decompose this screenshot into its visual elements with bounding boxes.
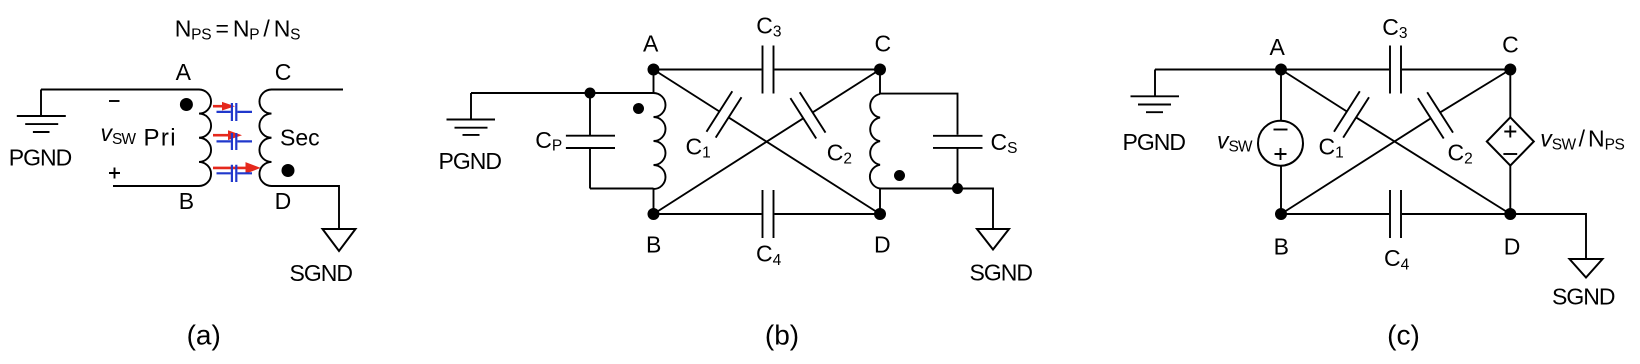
capacitor C3 (1390, 46, 1401, 94)
SGND triangle (323, 229, 356, 251)
svg-text:A: A (176, 59, 192, 85)
capacitor C1 plates (707, 91, 742, 137)
svg-text:PGND: PGND (439, 148, 502, 174)
minus inside circle (1274, 129, 1288, 131)
primary polarity dot (633, 103, 644, 114)
parasitic arrow 3 (red) (213, 162, 261, 174)
wire top-left to primary (41, 89, 199, 91)
primary polarity dot (180, 98, 193, 111)
wire secondary top (272, 89, 344, 91)
svg-text:B: B (179, 188, 194, 214)
capacitor CP (566, 93, 615, 189)
minus inside diamond (1503, 153, 1517, 155)
diagonal wire B-C (1281, 70, 1510, 215)
wire A to winding (653, 70, 655, 94)
svg-text:A: A (643, 31, 659, 57)
dependent source diamond (1487, 117, 1534, 165)
diagonal wire A-D (1281, 70, 1510, 215)
plus inside circle (1275, 148, 1287, 160)
transformer secondary winding Sec (259, 90, 271, 187)
ground PGND symbol (1131, 70, 1180, 113)
svg-text:SGND: SGND (970, 260, 1033, 286)
svg-text:C: C (875, 30, 892, 56)
capacitor C1 plates (1334, 91, 1369, 137)
svg-text:SGND: SGND (290, 260, 353, 286)
wire D to SGND (1510, 214, 1586, 259)
dependent source leads (1509, 70, 1511, 215)
svg-text:(c): (c) (1387, 320, 1420, 351)
svg-text:PGND: PGND (9, 144, 72, 170)
secondary polarity dot (894, 170, 905, 181)
node A (1275, 64, 1287, 76)
node A (648, 64, 660, 76)
svg-text:Sec: Sec (280, 125, 320, 151)
primary winding (654, 93, 666, 189)
svg-text:C: C (275, 59, 292, 85)
diagonal wire A-D (654, 70, 881, 215)
wire PGND to node A (1155, 69, 1281, 71)
parasitic arrow 1 (red) (213, 102, 235, 111)
svg-text:D: D (1504, 234, 1521, 260)
node B (1275, 208, 1287, 220)
capacitor C4 (1390, 190, 1401, 238)
node D (874, 208, 886, 220)
svg-text:D: D (275, 188, 292, 214)
SGND triangle (1570, 259, 1603, 278)
svg-text:(b): (b) (765, 320, 799, 351)
bottom edge wires (1281, 213, 1510, 215)
top edge wires (1281, 69, 1510, 71)
secondary polarity dot (282, 164, 295, 177)
CS bottom wire to SGND (880, 189, 993, 230)
svg-text:B: B (1274, 234, 1289, 260)
ground PGND symbol (447, 93, 496, 135)
secondary winding (870, 94, 880, 189)
capacitor C2 plates (1418, 92, 1453, 138)
capacitor C2 plates (790, 92, 825, 138)
capacitor C4 (763, 190, 774, 238)
wire CP bottom to primary bottom (590, 188, 654, 190)
capacitor CS (933, 136, 983, 189)
node C (874, 64, 886, 76)
minus sign (109, 100, 120, 102)
svg-text:C: C (1502, 32, 1519, 58)
plus sign (109, 168, 120, 179)
wire winding to D (879, 189, 881, 215)
vsw source circle (1258, 121, 1303, 166)
svg-text:Pri: Pri (144, 125, 178, 152)
wire bottom stub to primary (113, 185, 199, 187)
top edge wires (654, 69, 881, 71)
wire C to secondary winding (879, 70, 881, 95)
diagonal wire B-C (654, 70, 881, 215)
parasitic capacitor 2 (blue) (217, 133, 253, 150)
svg-text:A: A (1270, 34, 1286, 60)
junction dot CS bottom (952, 183, 963, 194)
ground PGND symbol (17, 90, 66, 133)
wire PGND to primary top (471, 92, 654, 94)
svg-text:SGND: SGND (1552, 284, 1615, 310)
node D (1504, 208, 1516, 220)
parasitic capacitor 1 (blue) (217, 103, 253, 121)
svg-text:D: D (874, 231, 891, 257)
node B (648, 208, 660, 220)
vsw source leads (1280, 70, 1282, 215)
transformer primary winding Pri (199, 90, 211, 187)
svg-text:PGND: PGND (1123, 129, 1186, 155)
capacitor C3 (763, 46, 774, 94)
plus inside diamond (1504, 126, 1516, 138)
parasitic arrow 2 (red) (213, 130, 242, 140)
wire winding to B (653, 189, 655, 214)
wire secondary bottom to SGND (272, 186, 340, 229)
parasitic capacitor 3 (blue) (217, 165, 253, 182)
CS loop top wire (880, 94, 958, 135)
node C (1504, 64, 1516, 76)
svg-text:B: B (646, 231, 661, 257)
svg-text:(a): (a) (187, 320, 221, 351)
junction node dot (585, 88, 596, 99)
SGND triangle (977, 229, 1009, 250)
bottom edge wires (654, 213, 881, 215)
